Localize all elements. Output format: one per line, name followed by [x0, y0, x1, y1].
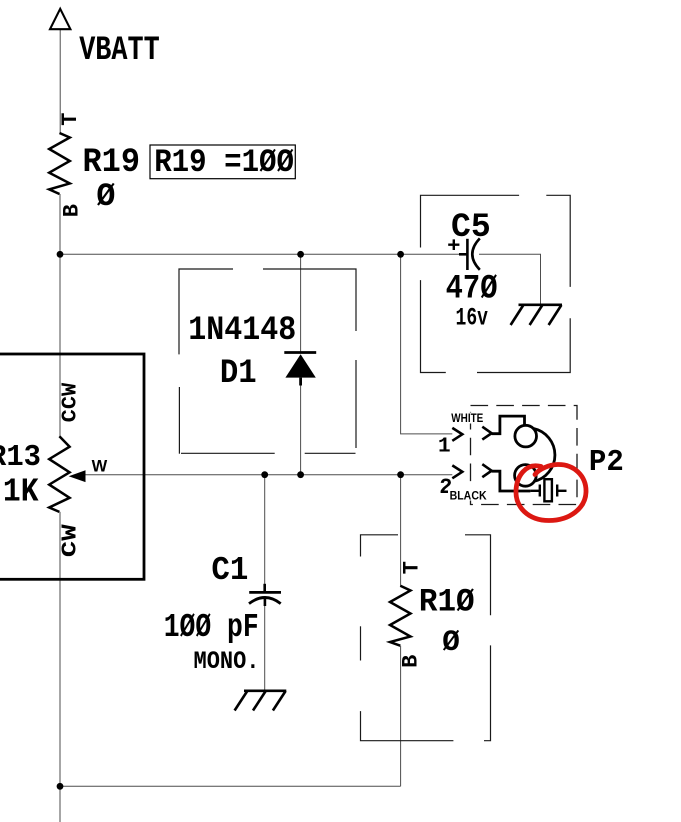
- svg-text:C5: C5: [451, 209, 491, 247]
- diode D1 triangle: [285, 354, 315, 377]
- crystal element left bar: [539, 485, 541, 497]
- svg-text:VBATT: VBATT: [79, 32, 160, 70]
- svg-text:MONO.: MONO.: [194, 647, 260, 676]
- wire C1 branch lower to ground: [264, 605, 266, 691]
- capacitor C5 left plate: [466, 239, 469, 270]
- capacitor C5 plus sign: [448, 239, 459, 250]
- wire VBATT rail upper: [59, 30, 61, 133]
- wire R10 branch lower: [400, 646, 402, 787]
- resistor R19 zigzag: [49, 133, 70, 194]
- svg-text:CW: CW: [60, 524, 83, 557]
- node junction R10 top: [397, 471, 404, 478]
- wire C1 branch upper: [264, 475, 266, 585]
- R13 enclosure box: [0, 354, 144, 579]
- node junction C1: [261, 471, 268, 478]
- capacitor C1 top stub: [263, 584, 266, 591]
- svg-text:P2: P2: [589, 445, 624, 480]
- P2 cable loop arc: [534, 429, 555, 482]
- svg-text:BLACK: BLACK: [450, 488, 487, 502]
- resistor R10 zigzag: [390, 586, 411, 646]
- svg-text:R13: R13: [0, 440, 41, 475]
- ground symbol at C1: [235, 691, 287, 711]
- label P2 pin1 name WHITE: [449, 413, 485, 424]
- R19 value callout box: [150, 145, 295, 179]
- capacitor C5 curved plate: [472, 238, 480, 269]
- P2 pin2 inner chevron: [482, 464, 491, 477]
- wire R10 branch upper: [400, 475, 402, 586]
- capacitor C5 lead stub: [459, 253, 467, 256]
- svg-text:B: B: [60, 204, 85, 217]
- crystal element body: [544, 479, 552, 501]
- svg-text:B: B: [399, 655, 424, 668]
- node junction D1 top: [297, 251, 304, 258]
- label P2 pin2 name BLACK: [448, 487, 488, 501]
- capacitor C1 curved plate: [249, 598, 281, 604]
- VBATT terminal triangle: [50, 9, 70, 29]
- svg-text:16v: 16v: [456, 304, 489, 333]
- node junction P2 branch top: [397, 251, 404, 258]
- P2 pin1 outer chevron: [452, 428, 462, 441]
- P2 pin1 internal trace: [492, 416, 525, 434]
- capacitor C1 bottom stub: [264, 598, 267, 606]
- svg-text:1N4148: 1N4148: [188, 312, 296, 350]
- wire rail between R19 and R13: [59, 194, 61, 436]
- P2 pin2 internal trace: [492, 471, 531, 491]
- wire bottom horizontal: [60, 785, 401, 787]
- P2 pin2 outer chevron: [452, 465, 462, 478]
- D1 dashed enclosure: [179, 269, 356, 454]
- P2 top contact circle: [515, 425, 537, 447]
- svg-text:1K: 1K: [3, 473, 39, 510]
- R10 dashed enclosure: [361, 535, 491, 741]
- svg-text:C1: C1: [211, 552, 248, 589]
- potentiometer R13 wiper arrow: [69, 470, 86, 482]
- svg-text:CCW: CCW: [60, 382, 83, 422]
- P2 pin1 inner chevron: [482, 427, 491, 440]
- ground symbol at C5: [511, 305, 562, 325]
- P2 bottom contact circle: [515, 465, 537, 487]
- wire C5 to ground corner: [479, 254, 541, 304]
- node junction top-left: [57, 251, 64, 258]
- wire P2 pin1 branch: [401, 254, 453, 434]
- diode D1 cathode bar: [284, 351, 316, 354]
- red annotation circle: [516, 464, 586, 520]
- svg-text:R19: R19: [83, 144, 141, 182]
- crystal element right bar: [556, 485, 558, 497]
- svg-text:R1Ø: R1Ø: [419, 583, 475, 620]
- svg-text:Ø: Ø: [442, 626, 460, 660]
- node junction D1 anode: [297, 471, 304, 478]
- node junction bottom-left: [57, 783, 64, 790]
- wire wiper to P2 pin2: [85, 474, 452, 476]
- wire D1 cathode branch: [300, 254, 302, 352]
- wire top horizontal node: [60, 253, 460, 255]
- wire rail below R13 to bottom edge: [59, 512, 61, 822]
- potentiometer R13 zigzag: [49, 436, 69, 512]
- capacitor C1 top plate: [249, 591, 281, 594]
- svg-text:T: T: [58, 113, 83, 126]
- svg-text:1ØØ pF: 1ØØ pF: [164, 609, 259, 646]
- crystal element left lead: [530, 490, 539, 492]
- P2 dashed enclosure: [471, 406, 578, 505]
- svg-text:1: 1: [438, 435, 451, 458]
- svg-text:R19 =1ØØ: R19 =1ØØ: [154, 144, 294, 181]
- svg-text:Ø: Ø: [96, 178, 115, 215]
- C5 dashed enclosure: [421, 195, 571, 372]
- wire D1 anode branch: [300, 385, 302, 475]
- crystal element right lead: [557, 490, 566, 492]
- svg-text:T: T: [400, 561, 425, 574]
- svg-text:W: W: [92, 457, 108, 475]
- svg-text:WHITE: WHITE: [451, 413, 483, 425]
- svg-text:D1: D1: [220, 355, 257, 393]
- diode D1 anode stub: [299, 378, 302, 386]
